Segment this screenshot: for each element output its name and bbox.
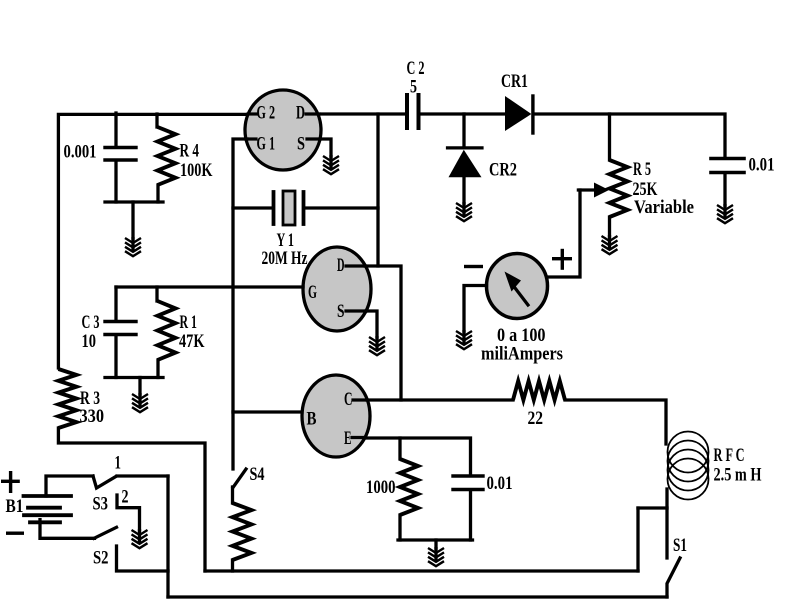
wire crystal left xyxy=(233,206,272,209)
wire RFC bottom to S1 and bus stub xyxy=(665,489,668,558)
svg-text:0.01: 0.01 xyxy=(487,473,513,494)
svg-text:330: 330 xyxy=(80,406,105,427)
wire collector line xyxy=(367,398,513,401)
ground below R4 block xyxy=(125,238,141,256)
meter M1 0-100 mA xyxy=(487,254,548,319)
wire R5 to ground xyxy=(608,217,611,236)
svg-text:20M Hz: 20M Hz xyxy=(262,248,308,269)
svg-text:5: 5 xyxy=(410,76,417,97)
wire R4 branch xyxy=(157,114,158,202)
switch S2 blade xyxy=(94,527,117,538)
wire C3 branch xyxy=(114,287,117,378)
resistor R5 25K variable xyxy=(610,160,628,217)
ground below 0.01 top-right xyxy=(717,205,733,223)
ground below R5 xyxy=(602,236,618,254)
capacitor C2 xyxy=(405,95,409,128)
ground at U2 source xyxy=(369,337,385,355)
capacitor 0.001 xyxy=(105,148,136,161)
svg-text:E: E xyxy=(344,428,352,449)
svg-text:S: S xyxy=(297,134,305,155)
svg-text:2.5 m H: 2.5 m H xyxy=(714,465,762,486)
svg-text:S3: S3 xyxy=(93,494,109,515)
wire 0.01tr to ground xyxy=(723,174,726,205)
transistor U2 FET xyxy=(303,247,371,331)
wiper arrow of R5 xyxy=(578,188,596,191)
svg-text:100K: 100K xyxy=(180,160,213,181)
svg-text:10: 10 xyxy=(82,331,97,352)
switch S1 blade xyxy=(667,558,680,597)
wire emitter line xyxy=(365,438,471,474)
resistor R4 xyxy=(158,127,176,185)
ground below meter xyxy=(456,331,472,349)
wire C3R1 bottom join xyxy=(105,376,163,379)
wire S4 to resistor xyxy=(231,487,234,503)
wire junction drop x378 xyxy=(376,114,379,266)
svg-text:S: S xyxy=(337,301,345,322)
wire ground bus xyxy=(205,569,638,572)
resistor below S4 xyxy=(233,503,252,560)
svg-text:D: D xyxy=(337,255,345,276)
pin D stub U2 xyxy=(346,264,365,267)
battery B1 plates xyxy=(24,494,72,498)
diode CR2 xyxy=(448,146,483,149)
wire bottom bus xyxy=(168,595,667,598)
wire left rail and bottom-left feed xyxy=(58,114,246,368)
ground at U1 source xyxy=(323,156,339,174)
svg-text:D: D xyxy=(296,103,305,124)
wire meter minus lead xyxy=(464,286,487,332)
svg-text:CR1: CR1 xyxy=(501,71,528,92)
svg-text:B: B xyxy=(307,409,317,430)
wire RC block bottom join xyxy=(105,200,163,203)
svg-text:R 4: R 4 xyxy=(180,141,200,162)
wire top rail U1.D to C2 xyxy=(321,112,404,115)
svg-text:R F C: R F C xyxy=(714,445,745,466)
battery plus sign xyxy=(1,480,20,483)
wire U1 source to ground xyxy=(320,139,331,156)
pin G2 stub xyxy=(248,112,257,115)
svg-text:2: 2 xyxy=(122,487,129,508)
svg-text:miliAmpers: miliAmpers xyxy=(481,344,563,365)
wire U2 gate xyxy=(116,285,303,288)
wire C2 to CR1 xyxy=(421,112,505,115)
switch S4 blade xyxy=(233,469,246,488)
wire 22 to RFC xyxy=(565,400,666,444)
wire base xyxy=(233,410,302,413)
wire S2 contact xyxy=(117,546,169,571)
switch S3 blade xyxy=(93,476,116,488)
meter plus sign xyxy=(552,257,572,260)
inductor RFC 2.5mH xyxy=(668,432,709,473)
svg-text:R 1: R 1 xyxy=(180,312,198,333)
wire gate bus x233 xyxy=(233,139,247,469)
wire U2 drain xyxy=(365,266,401,400)
capacitor 0.01 top-right xyxy=(711,157,744,161)
svg-text:Variable: Variable xyxy=(634,197,694,218)
svg-text:S1: S1 xyxy=(673,535,687,556)
svg-text:G 1: G 1 xyxy=(257,134,276,155)
svg-text:1: 1 xyxy=(115,453,122,474)
diode CR1 xyxy=(505,96,531,131)
transistor Q1 BJT xyxy=(302,375,370,457)
wire S3 contact1 to bottom bus xyxy=(117,474,168,477)
wire S3 contact 2 xyxy=(117,495,140,530)
ground below emitter block xyxy=(428,548,444,566)
wire 1000 branch xyxy=(398,438,401,540)
wire crystal right xyxy=(305,206,378,209)
svg-text:0.001: 0.001 xyxy=(64,142,97,163)
pin C stub xyxy=(353,398,367,401)
svg-text:CR2: CR2 xyxy=(489,160,517,181)
resistor R3 xyxy=(58,369,76,428)
svg-text:C 3: C 3 xyxy=(82,312,100,333)
svg-text:B1: B1 xyxy=(6,496,24,517)
wire battery plus lead xyxy=(46,476,93,496)
ground below C3R1 block xyxy=(132,394,148,412)
svg-text:S4: S4 xyxy=(250,464,265,485)
wire R5 drop xyxy=(608,114,611,160)
pin S stub xyxy=(307,137,320,140)
svg-text:G 2: G 2 xyxy=(257,103,276,124)
wire meter plus lead xyxy=(548,190,581,277)
capacitor 0.01 bottom xyxy=(453,474,483,477)
svg-text:47K: 47K xyxy=(179,331,205,352)
pin E stub xyxy=(352,436,365,439)
ground below CR2 xyxy=(456,203,472,221)
wire S4 resistor to bus xyxy=(231,560,234,571)
battery minus sign xyxy=(6,532,24,535)
capacitor C3 xyxy=(105,320,136,323)
resistor 1000 xyxy=(400,459,418,515)
svg-text:1000: 1000 xyxy=(366,477,396,498)
meter minus sign xyxy=(464,265,483,268)
wire CR1 to top-right corner xyxy=(535,114,726,156)
wire U2 source to ground xyxy=(366,311,377,337)
ground at S3 contact 2 xyxy=(132,530,148,548)
resistor R1 xyxy=(158,301,176,360)
svg-text:G: G xyxy=(308,282,317,303)
wire 0.001 cap branch xyxy=(114,113,117,202)
svg-text:C: C xyxy=(344,389,353,410)
wire R1 branch xyxy=(157,287,158,378)
wire battery minus lead xyxy=(40,520,95,539)
wire emitter block bottom xyxy=(469,491,472,540)
pin S stub U2 xyxy=(346,309,366,312)
pin G1 stub xyxy=(246,137,256,140)
svg-text:R 5: R 5 xyxy=(633,159,651,180)
pin D stub xyxy=(306,112,319,115)
svg-text:S2: S2 xyxy=(93,548,109,569)
resistor 22 xyxy=(513,381,565,400)
transistor U1 dual-gate MOSFET xyxy=(245,90,321,170)
svg-text:0.01: 0.01 xyxy=(749,155,775,176)
crystal Y1 xyxy=(272,192,276,224)
wire CR2 drop xyxy=(462,114,465,147)
svg-text:22: 22 xyxy=(528,408,544,429)
